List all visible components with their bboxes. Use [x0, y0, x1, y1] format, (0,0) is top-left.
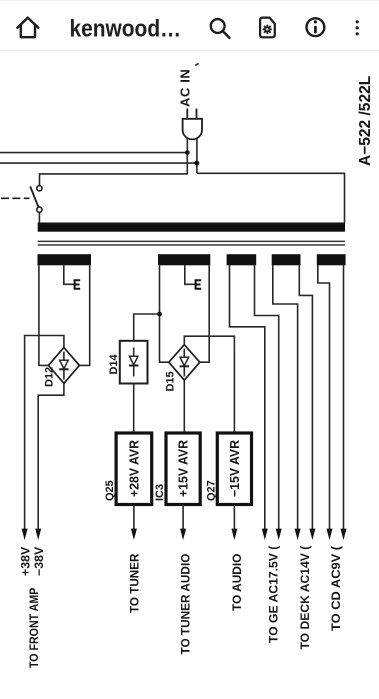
- svg-text:TO FRONT AMP: TO FRONT AMP: [27, 588, 41, 668]
- svg-text:D12: D12: [43, 367, 55, 387]
- arrow to tuner: [131, 529, 137, 540]
- arrow to audio: [231, 529, 237, 540]
- bridge rectifier D15: [169, 345, 200, 381]
- svg-text:A−522 /522L: A−522 /522L: [357, 76, 374, 166]
- arrow ge ac 1: [262, 529, 268, 540]
- svg-text:TO TUNER AUDIO: TO TUNER AUDIO: [179, 554, 193, 655]
- transformer T1 secondary winding S5 bar: [317, 254, 346, 265]
- svg-text:−38V: −38V: [34, 546, 46, 576]
- wire D12 plus output: [25, 336, 64, 531]
- regulator Q27 box: [217, 433, 251, 505]
- bridge rectifier D12: [48, 348, 79, 384]
- wire S5 right end AC out: [343, 265, 345, 530]
- ground E1: [75, 279, 81, 289]
- transformer T1 secondary winding S4 bar: [272, 254, 301, 265]
- svg-text:−15V AVR: −15V AVR: [227, 439, 242, 497]
- arrow to front amp minus: [35, 529, 41, 540]
- svg-text:TO GE AC17.5V (: TO GE AC17.5V (: [266, 546, 280, 643]
- transformer T1 secondary winding S1 bar: [38, 254, 92, 265]
- junction node S2-D14: [157, 312, 162, 317]
- app toolbar: [0, 0, 379, 52]
- wire D15 top output to Q27: [184, 336, 234, 433]
- switch S1 bottom contact: [37, 207, 42, 212]
- arrow deck ac 1: [295, 529, 301, 540]
- wire S5 left end AC out: [318, 265, 330, 530]
- home icon: [17, 18, 38, 38]
- svg-text:Q27: Q27: [205, 480, 217, 501]
- svg-text:+15V AVR: +15V AVR: [176, 439, 191, 497]
- wire S4 left end AC out: [273, 265, 298, 530]
- switch S1 linkage dashed: [1, 197, 30, 199]
- svg-text:TO AUDIO: TO AUDIO: [230, 554, 244, 611]
- wire S3 left end AC out: [230, 265, 265, 530]
- wire AC line lower: [0, 162, 197, 164]
- switch S1 lever: [30, 186, 38, 207]
- switch S1 top contact: [37, 186, 42, 191]
- svg-text:AC IN: AC IN: [178, 69, 193, 107]
- plug P1 body: [183, 119, 202, 140]
- wire S1 earth tap: [64, 265, 75, 284]
- junction dot lower: [195, 161, 200, 166]
- svg-text:TO DECK AC14V (: TO DECK AC14V (: [298, 546, 312, 650]
- wire S2 left end to D15: [160, 265, 169, 362]
- arrow ge ac 2: [276, 529, 282, 540]
- search icon: [211, 19, 230, 38]
- arrow cd ac 2: [341, 529, 347, 540]
- wire S3 right end AC out: [255, 265, 279, 530]
- svg-text:+28V AVR: +28V AVR: [126, 439, 141, 497]
- transformer T1 secondary winding S2 bar: [158, 254, 210, 265]
- arrow cd ac 1: [327, 529, 333, 540]
- wire primary top edge left: [40, 174, 188, 186]
- svg-text:Q25: Q25: [104, 480, 116, 501]
- regulator Q25 box: [116, 433, 152, 505]
- wire S1 left end to D12: [39, 265, 49, 365]
- wire D14 to Q25: [133, 384, 135, 434]
- plug P1 prong pins: [187, 109, 196, 120]
- arrow deck ac 2: [309, 529, 315, 540]
- svg-text:IC3: IC3: [154, 484, 166, 501]
- transformer T1 core line 1: [38, 241, 345, 243]
- junction dot upper: [185, 150, 190, 155]
- wire D15 bottom output to IC3: [183, 380, 185, 433]
- ground E2: [196, 279, 202, 289]
- diode D14: [120, 341, 148, 384]
- wire S1 right end to D12: [79, 265, 89, 365]
- wire plug right lead: [196, 138, 198, 174]
- regulator IC3 box: [166, 433, 200, 505]
- transformer T1 primary winding bar: [38, 223, 345, 232]
- wire S4 right end AC out: [299, 265, 312, 530]
- wire S2 right end to D15: [200, 265, 209, 362]
- wire S2 earth tap: [185, 265, 196, 284]
- wire junction to D14: [134, 314, 160, 341]
- wire primary top edge right: [197, 173, 345, 222]
- wire plug left lead: [186, 138, 188, 175]
- info icon: [307, 18, 325, 36]
- wire AC line upper: [0, 152, 187, 154]
- wire Q25 output: [133, 505, 135, 531]
- transformer T1 core line 2: [38, 244, 345, 246]
- transformer T1 secondary winding S3 bar: [227, 254, 257, 265]
- svg-text:D15: D15: [164, 371, 176, 391]
- arrow to tuner audio: [180, 529, 186, 540]
- wire D12 minus output: [38, 383, 64, 530]
- document-with-gear icon: [260, 18, 275, 38]
- svg-text:+38V: +38V: [20, 546, 32, 576]
- svg-text:TO TUNER: TO TUNER: [128, 553, 142, 613]
- arrow to front amp plus: [22, 529, 28, 540]
- overflow menu icon: [356, 20, 359, 35]
- svg-text:D14: D14: [108, 353, 120, 374]
- wire IC3 output: [182, 505, 184, 531]
- AC IN tick mark: [195, 63, 199, 65]
- wire switch to primary: [38, 212, 40, 222]
- svg-text:TO CD AC9V (: TO CD AC9V (: [329, 546, 343, 631]
- wire Q27 output: [233, 505, 235, 531]
